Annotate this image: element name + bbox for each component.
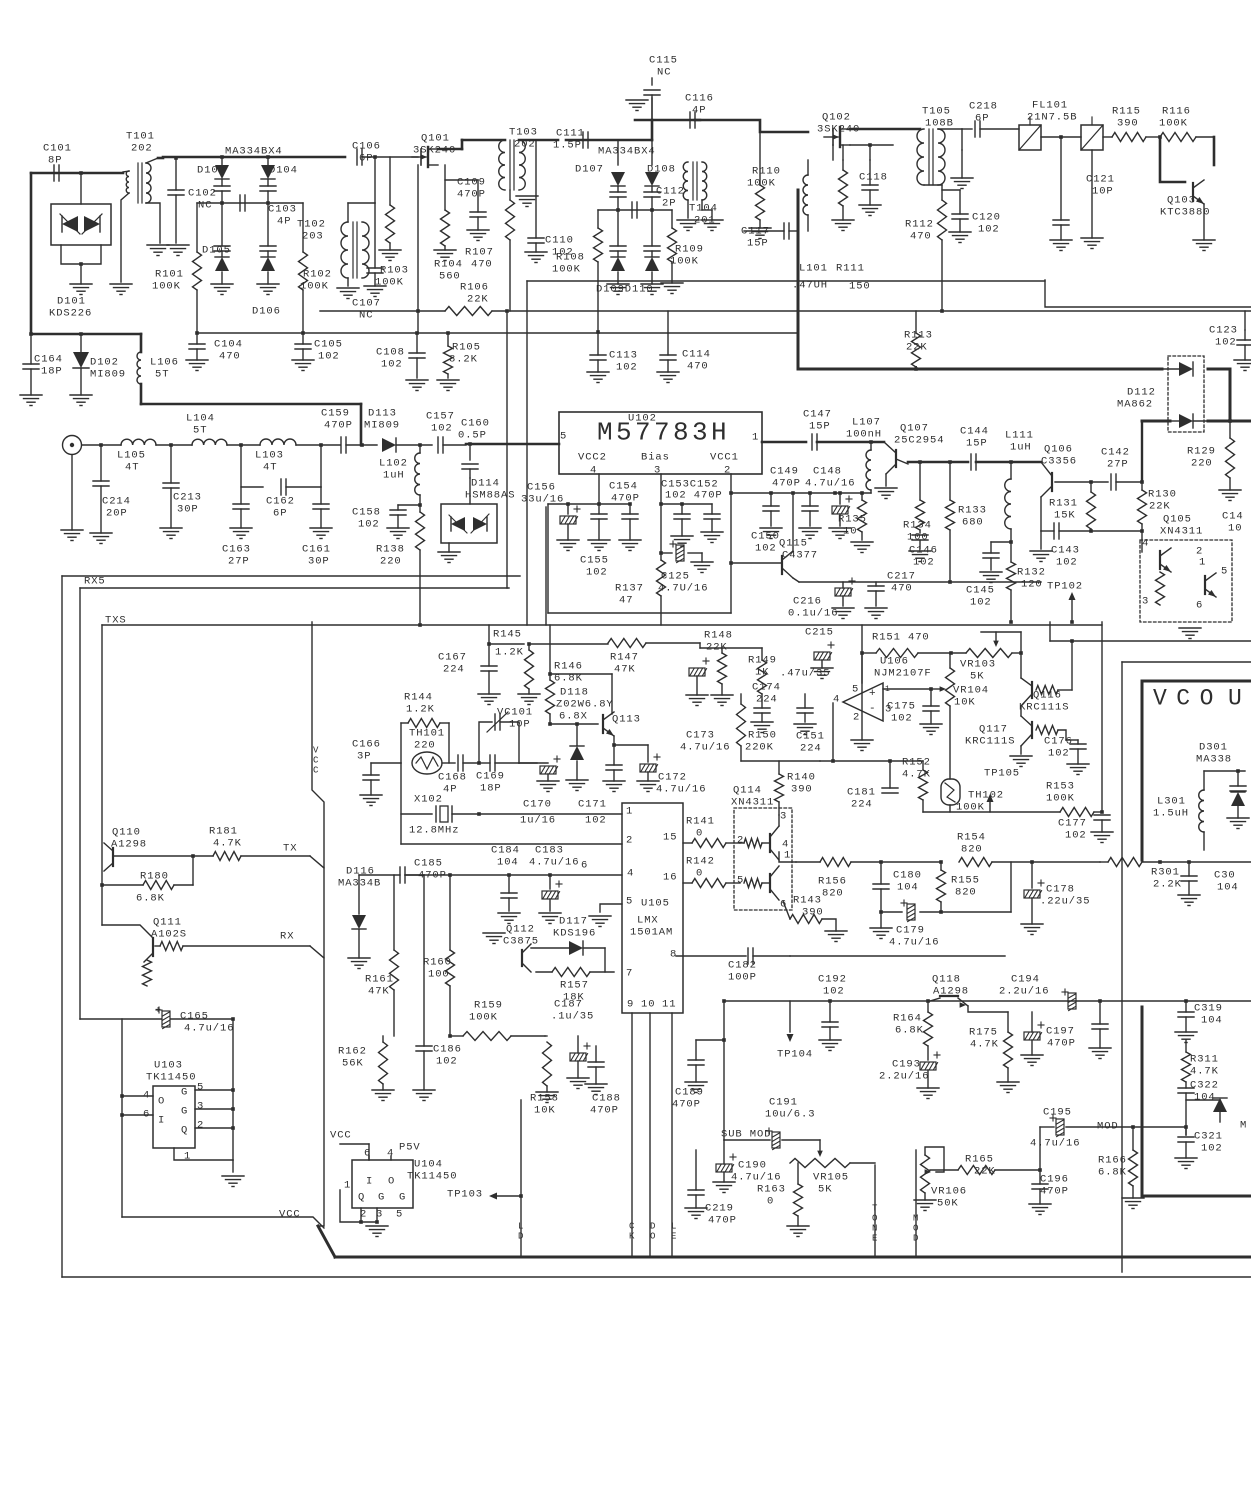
wire (102, 624, 1102, 626)
inductor L102 (379, 445, 420, 505)
svg-text:C178: C178 (1046, 884, 1075, 896)
svg-text:C158: C158 (352, 507, 381, 519)
svg-text:C3875: C3875 (503, 936, 539, 948)
wire (479, 813, 622, 815)
wire (519, 762, 537, 764)
svg-text:TH101: TH101 (409, 728, 445, 740)
svg-text:Z02W6.8Y: Z02W6.8Y (556, 699, 614, 711)
wire (31, 172, 123, 175)
wire (335, 1256, 1251, 1259)
svg-text:15P: 15P (747, 238, 769, 250)
wire (797, 190, 800, 369)
junction (729, 491, 837, 495)
wire (753, 955, 790, 957)
svg-text:100K: 100K (747, 178, 776, 190)
svg-text:15P: 15P (809, 421, 831, 433)
capacitor C168 (438, 755, 467, 796)
wire (548, 612, 731, 614)
node DO (650, 1222, 655, 1242)
capacitor C153 (661, 479, 723, 547)
svg-text:4.7u/16: 4.7u/16 (889, 937, 939, 949)
wire (611, 674, 613, 714)
capacitor C104 (186, 333, 243, 371)
resistor R134 (903, 460, 932, 543)
svg-text:R146: R146 (554, 661, 583, 673)
svg-text:C103: C103 (268, 204, 297, 216)
svg-text:+: + (155, 1006, 161, 1017)
wire (614, 744, 648, 746)
svg-text:D301: D301 (1199, 742, 1228, 754)
svg-text:470P: 470P (611, 493, 640, 505)
resistor R137 (615, 553, 666, 625)
label Q116t (1033, 690, 1062, 702)
svg-text:D: D (913, 1234, 918, 1244)
junction (929, 687, 933, 691)
resistor R153 (1046, 781, 1102, 817)
svg-text:C161: C161 (302, 544, 331, 556)
diode D106 (252, 203, 281, 318)
capacitor C152 (701, 504, 723, 543)
svg-text:C104: C104 (214, 339, 243, 351)
wire (442, 762, 455, 764)
svg-text:R145: R145 (493, 629, 522, 641)
resistor R154 (959, 858, 992, 867)
wire (82, 444, 121, 446)
svg-text:XN4311: XN4311 (731, 797, 774, 809)
wire (195, 1090, 233, 1128)
resistor R180 (102, 856, 193, 890)
capacitor C183 (529, 845, 579, 924)
ground (70, 284, 92, 295)
svg-text:C143: C143 (1051, 545, 1080, 557)
box VCOc (1141, 1194, 1144, 1196)
capacitor C106 (352, 141, 381, 165)
svg-text:C194: C194 (1011, 974, 1040, 986)
svg-text:Q113: Q113 (612, 714, 641, 726)
wire (545, 507, 547, 625)
svg-text:D101: D101 (57, 296, 86, 308)
resistor R111 (832, 160, 854, 231)
wire (310, 946, 324, 958)
svg-text:R151 470: R151 470 (872, 632, 930, 644)
svg-text:C181: C181 (847, 787, 876, 799)
svg-text:1: 1 (752, 432, 759, 444)
resistor R150 (737, 694, 777, 761)
svg-text:C197: C197 (1046, 1026, 1075, 1038)
resistor R151 (860, 625, 951, 658)
svg-text:MA334BX4: MA334BX4 (225, 146, 283, 158)
svg-text:100P: 100P (728, 972, 757, 984)
svg-text:1.2K: 1.2K (406, 704, 435, 716)
potentiometer VR104 (946, 653, 990, 709)
wire (832, 145, 834, 160)
node VCC (313, 746, 319, 776)
capacitor C215b (811, 642, 834, 679)
capacitor C319 (1175, 1001, 1223, 1043)
thermistor TH102b (941, 779, 1004, 814)
svg-text:2: 2 (853, 712, 860, 724)
svg-text:VCC: VCC (330, 1130, 352, 1142)
diode D322 (1186, 1098, 1227, 1112)
capacitor C112 (616, 186, 685, 218)
resistor R105 (437, 331, 481, 390)
node LD (518, 1222, 523, 1242)
svg-text:56K: 56K (342, 1058, 364, 1070)
wire (908, 461, 968, 464)
svg-text:C192: C192 (818, 974, 847, 986)
svg-text:10K: 10K (954, 697, 976, 709)
svg-text:R106: R106 (460, 282, 489, 294)
svg-text:MI809: MI809 (364, 420, 400, 432)
svg-text:R110: R110 (752, 166, 781, 178)
svg-text:Bias: Bias (641, 452, 670, 464)
wire (545, 1035, 547, 1037)
svg-text:D118: D118 (560, 687, 589, 699)
label C150 (751, 531, 780, 555)
svg-text:6: 6 (581, 860, 588, 872)
inductor L103 (255, 439, 296, 474)
resistor R107 (465, 190, 515, 311)
junction (1089, 480, 1093, 484)
capacitor C180 (873, 862, 922, 912)
test point TP104 (777, 1001, 813, 1061)
svg-text:D112: D112 (1127, 387, 1156, 399)
svg-text:102: 102 (913, 557, 935, 569)
svg-text:Q111: Q111 (153, 917, 182, 929)
wire (1170, 420, 1208, 422)
svg-text:VCC1: VCC1 (710, 452, 739, 464)
svg-text:C172: C172 (658, 772, 687, 784)
svg-text:E: E (671, 1232, 676, 1242)
svg-text:21N7.5B: 21N7.5B (1027, 112, 1077, 124)
wire (695, 1150, 697, 1190)
svg-text:15: 15 (663, 832, 677, 844)
svg-text:102: 102 (585, 815, 607, 827)
svg-text:C180: C180 (893, 870, 922, 882)
test point TP102 (1047, 581, 1083, 622)
junction (659, 502, 684, 506)
wire (832, 703, 834, 761)
svg-text:470: 470 (687, 361, 709, 373)
svg-text:10P: 10P (1092, 186, 1114, 198)
svg-text:I: I (366, 1176, 373, 1188)
svg-text:C177: C177 (1058, 818, 1087, 830)
svg-text:R107: R107 (465, 247, 494, 259)
wire (296, 444, 340, 446)
svg-text:102: 102 (616, 362, 638, 374)
wire (1020, 632, 1022, 653)
svg-text:C111: C111 (556, 128, 585, 140)
svg-text:U104: U104 (414, 1159, 443, 1171)
svg-text:VR103: VR103 (960, 659, 996, 671)
svg-text:224: 224 (851, 799, 873, 811)
diode D301s (1230, 771, 1246, 791)
svg-text:C163: C163 (222, 544, 251, 556)
wire (358, 875, 360, 914)
capacitor C197x (1089, 1001, 1111, 1059)
svg-text:O: O (388, 1176, 395, 1188)
svg-text:I: I (158, 1115, 165, 1127)
wire (346, 444, 377, 446)
wire (506, 311, 508, 588)
svg-text:D108: D108 (647, 164, 676, 176)
wire (723, 1140, 725, 1164)
svg-text:4: 4 (833, 694, 840, 706)
diode D104 (260, 157, 298, 203)
capacitor C174 (751, 682, 781, 733)
resistor R156 (796, 858, 881, 900)
wire (141, 403, 361, 406)
svg-text:4.7u/16: 4.7u/16 (805, 478, 855, 490)
svg-text:Q103: Q103 (1167, 195, 1196, 207)
ground (914, 1200, 936, 1211)
svg-text:47K: 47K (368, 986, 390, 998)
wire (598, 474, 600, 504)
opamp U106 (833, 656, 932, 724)
capacitor C216b (788, 578, 855, 620)
svg-text:V: V (313, 746, 319, 756)
svg-text:O: O (872, 1214, 877, 1224)
wire (232, 1160, 234, 1172)
wire (101, 625, 103, 925)
svg-text:47: 47 (619, 595, 633, 607)
svg-text:470P: 470P (772, 478, 801, 490)
svg-text:4P: 4P (277, 216, 291, 228)
svg-text:470: 470 (910, 231, 932, 243)
ground (257, 284, 279, 295)
wire (1101, 622, 1103, 812)
svg-text:MA338: MA338 (1196, 754, 1232, 766)
wire (762, 882, 770, 884)
svg-text:9: 9 (627, 999, 634, 1011)
svg-text:UNIT: UNIT (1228, 686, 1251, 712)
crystal X102 (401, 794, 479, 837)
wire (695, 1040, 697, 1060)
svg-text:L102: L102 (379, 458, 408, 470)
junction (220, 155, 270, 159)
svg-text:R158: R158 (530, 1093, 559, 1105)
svg-text:VCC2: VCC2 (578, 452, 607, 464)
svg-text:4: 4 (1142, 538, 1149, 550)
svg-text:R162: R162 (338, 1046, 367, 1058)
svg-text:L111: L111 (1005, 430, 1034, 442)
label R180v (136, 893, 165, 905)
ground (20, 395, 42, 406)
svg-text:R153: R153 (1046, 781, 1075, 793)
wire (62, 575, 520, 577)
inductor L105 (117, 439, 156, 473)
wire (340, 1190, 377, 1222)
capacitor C163 (222, 487, 252, 568)
label Q106t (1041, 444, 1077, 468)
resistor R135b (838, 491, 873, 552)
wire (1041, 136, 1081, 138)
label Q115t (779, 538, 818, 562)
capacitor C303d (1178, 862, 1200, 906)
svg-text:4.7K: 4.7K (1190, 1066, 1219, 1078)
capacitor C161 (302, 487, 332, 568)
capacitor C218 (969, 101, 998, 137)
svg-text:C169: C169 (476, 771, 505, 783)
svg-text:4.7u/16: 4.7u/16 (680, 742, 730, 754)
svg-text:D: D (518, 1232, 523, 1242)
svg-text:T101: T101 (126, 131, 155, 143)
svg-text:KDS226: KDS226 (49, 308, 92, 320)
svg-text:R134: R134 (903, 520, 932, 532)
svg-text:C147: C147 (803, 409, 832, 421)
wire (631, 1013, 633, 1257)
wire (820, 760, 923, 762)
svg-text:15K: 15K (1054, 510, 1076, 522)
label C190 (731, 1160, 781, 1184)
capacitor C166f (360, 763, 401, 806)
svg-text:R112: R112 (905, 219, 934, 231)
capacitor C157 (426, 411, 455, 453)
svg-text:D103: D103 (197, 165, 226, 177)
svg-text:470P: 470P (708, 1215, 737, 1227)
svg-text:100: 100 (907, 532, 929, 544)
svg-text:33u/16: 33u/16 (521, 494, 564, 506)
junction (722, 999, 726, 1003)
svg-text:D113: D113 (368, 408, 397, 420)
svg-text:1uH: 1uH (1010, 442, 1032, 454)
capacitor C192 (818, 974, 847, 1051)
svg-text:C164: C164 (34, 354, 63, 366)
svg-text:8.2K: 8.2K (449, 354, 478, 366)
svg-text:470P: 470P (672, 1099, 701, 1111)
svg-text:C182: C182 (728, 960, 757, 972)
capacitor C120 (972, 212, 1001, 236)
diode D101 (49, 173, 111, 320)
wire (923, 811, 1060, 813)
capacitor C170b (520, 756, 560, 827)
svg-text:RX5: RX5 (84, 576, 106, 588)
junction (468, 442, 472, 446)
wire (62, 1276, 1251, 1278)
svg-text:A1298: A1298 (111, 839, 147, 851)
junction (418, 623, 422, 627)
capacitor C179c (901, 900, 915, 922)
diode D117c (531, 941, 605, 972)
svg-text:4T: 4T (125, 462, 139, 474)
svg-text:N: N (872, 1224, 877, 1234)
junction (191, 854, 195, 858)
resistor R144 (401, 692, 449, 763)
wire (1193, 204, 1215, 251)
node VCCc (279, 1209, 301, 1221)
junction (868, 143, 872, 147)
svg-text:4.7u/16: 4.7u/16 (1030, 1138, 1080, 1150)
svg-text:C107: C107 (352, 298, 381, 310)
svg-text:5: 5 (560, 431, 567, 443)
svg-text:D117: D117 (559, 916, 588, 928)
junction (1019, 651, 1023, 655)
ground (147, 245, 189, 256)
wire (874, 1165, 876, 1257)
svg-text:104: 104 (1217, 882, 1239, 894)
junction (1038, 1168, 1042, 1172)
wire (925, 1147, 944, 1172)
wire (174, 1148, 233, 1160)
capacitor C108 (376, 331, 428, 390)
svg-text:6P: 6P (273, 508, 287, 520)
svg-text:Q110: Q110 (112, 827, 141, 839)
svg-text:C: C (629, 1222, 635, 1232)
resistor R112b (905, 185, 947, 313)
svg-text:10K: 10K (534, 1105, 556, 1117)
junction (1140, 480, 1144, 484)
svg-text:22K: 22K (974, 1166, 996, 1178)
svg-text:RX: RX (280, 931, 294, 943)
transformer T104 (683, 162, 718, 227)
transistor Q107 (875, 423, 944, 499)
wire (762, 441, 806, 444)
capacitor C194c (1062, 989, 1076, 1011)
capacitor C195 (1030, 1107, 1133, 1150)
wire (360, 404, 363, 445)
junction (418, 443, 422, 447)
svg-text:R142: R142 (686, 856, 715, 868)
svg-text:A1298: A1298 (933, 986, 969, 998)
svg-text:100K: 100K (552, 264, 581, 276)
svg-text:R150: R150 (748, 730, 777, 742)
capacitor C110 (525, 140, 574, 263)
wire (613, 736, 615, 745)
svg-text:1.2K: 1.2K (495, 647, 524, 659)
junction (548, 672, 552, 676)
svg-text:Q117: Q117 (979, 724, 1008, 736)
svg-text:R132: R132 (1017, 567, 1046, 579)
junction (1158, 135, 1162, 139)
box VCOb (1141, 1007, 1144, 1194)
svg-text:5: 5 (396, 1209, 403, 1221)
svg-text:100K: 100K (1046, 793, 1075, 805)
svg-text:220K: 220K (745, 742, 774, 754)
resistor R148b (700, 630, 733, 706)
diode D116 (338, 866, 381, 969)
svg-text:C113: C113 (609, 350, 638, 362)
wire (102, 925, 152, 937)
svg-text:C162: C162 (266, 496, 295, 508)
svg-text:T105: T105 (922, 106, 951, 118)
capacitor C154 (609, 481, 641, 551)
diode D107 (575, 140, 626, 210)
svg-text:C125: C125 (661, 571, 690, 583)
svg-text:4T: 4T (263, 462, 277, 474)
resistor R159 (463, 1000, 511, 1041)
svg-text:C123: C123 (1209, 325, 1238, 337)
junction (477, 761, 481, 765)
wire (31, 333, 141, 336)
svg-text:102: 102 (1065, 830, 1087, 842)
svg-text:VC101: VC101 (497, 707, 533, 719)
wire (120, 1094, 153, 1117)
wire (1050, 640, 1251, 642)
wire (405, 874, 424, 876)
node VCCb (330, 1130, 369, 1160)
svg-text:D106: D106 (252, 306, 281, 318)
svg-text:224: 224 (443, 664, 465, 676)
svg-text:5K: 5K (818, 1184, 832, 1196)
svg-text:R105: R105 (452, 342, 481, 354)
transistor Q117 (965, 706, 1066, 754)
svg-text:6.8K: 6.8K (136, 893, 165, 905)
label D117 (553, 916, 596, 940)
resistor R140 (775, 761, 816, 815)
svg-text:2.2u/16: 2.2u/16 (879, 1071, 929, 1083)
junction (319, 443, 323, 447)
svg-text:NJM2107F: NJM2107F (874, 668, 932, 680)
